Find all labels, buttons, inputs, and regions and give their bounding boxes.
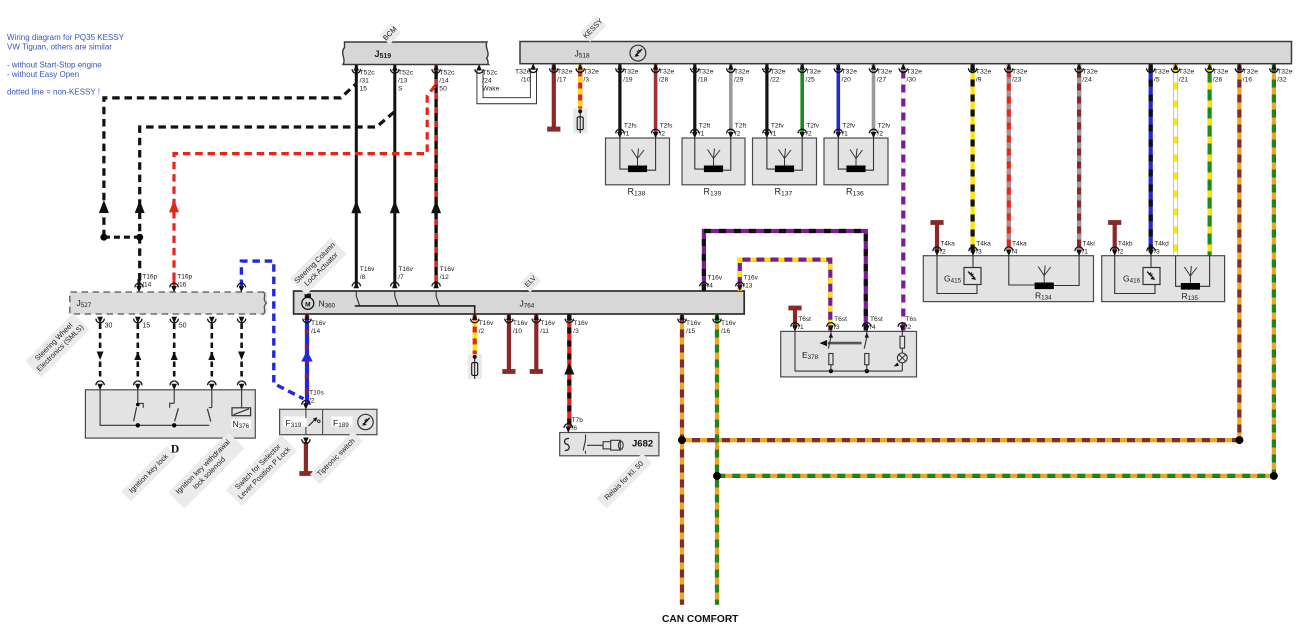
svg-text:T32e: T32e <box>583 69 599 76</box>
svg-text:T32e: T32e <box>515 69 531 76</box>
svg-text:/3: /3 <box>976 248 982 255</box>
junction dot CAN left 1 <box>678 436 686 444</box>
svg-text:/25: /25 <box>805 76 815 83</box>
wire T32e/5 (blue/black) <box>1149 65 1153 253</box>
connector J527 bottom 30 <box>96 317 113 330</box>
connector T32e/19 on J518 <box>616 63 639 83</box>
svg-text:/28: /28 <box>659 76 669 83</box>
connector J527 bottom x211 <box>208 317 216 323</box>
terminator above T4ka/2 <box>930 220 943 250</box>
connector T16v/13 on ELV top <box>736 275 759 292</box>
connector T2fs/1 on R138 <box>616 123 638 139</box>
wire T32e/20 (blue) <box>836 65 840 136</box>
svg-text:T32e: T32e <box>842 69 858 76</box>
svg-text:/4: /4 <box>1012 248 1018 255</box>
svg-text:T32e: T32e <box>1082 69 1098 76</box>
connector T2fs/2 on R138 <box>651 123 673 139</box>
svg-text:/19: /19 <box>623 76 633 83</box>
wire T32e/9 (yellow/black) <box>970 65 974 253</box>
wire T32e/26 (green/yellow) <box>1207 65 1211 256</box>
svg-text:T16v: T16v <box>721 320 736 327</box>
junction dot CAN right 2 <box>1270 472 1278 480</box>
svg-text:T52c: T52c <box>398 70 414 77</box>
svg-text:T32e: T32e <box>976 69 992 76</box>
svg-text:/9: /9 <box>976 76 982 83</box>
wire CAN comfort high T32e/32 (orange/green) <box>717 65 1274 476</box>
svg-text:Wake: Wake <box>482 86 499 93</box>
ignition lock housing D box <box>85 390 255 438</box>
svg-text:/2: /2 <box>660 130 666 137</box>
note header text <box>7 33 125 97</box>
connector T2ft/1 on R139 <box>691 123 711 139</box>
svg-text:T7b: T7b <box>572 417 584 424</box>
wire T16v/10 (maroon) terminator <box>502 315 515 374</box>
label CAN COMFORT <box>662 614 739 625</box>
svg-text:T32e: T32e <box>1012 69 1028 76</box>
junction dot CAN left 2 <box>713 472 721 480</box>
svg-text:T2fv: T2fv <box>878 123 892 130</box>
svg-text:/16: /16 <box>1243 76 1253 83</box>
svg-text:/13: /13 <box>398 78 408 85</box>
dashed wire non-KESSY red <box>169 84 436 280</box>
label BCM <box>380 23 401 44</box>
svg-text:T16p: T16p <box>142 274 157 281</box>
dashed wire J527 to D at x211 <box>208 324 215 382</box>
svg-text:/13: /13 <box>743 282 752 289</box>
label R136 <box>846 187 864 198</box>
connector T32e/9 on J518 <box>968 63 991 83</box>
connector T32e/28 on J518 <box>651 63 674 83</box>
connector T2ft/2 on R139 <box>727 123 747 139</box>
svg-text:15: 15 <box>142 323 150 330</box>
svg-text:T32e: T32e <box>734 69 750 76</box>
svg-text:/1: /1 <box>842 130 848 137</box>
svg-text:T2fs: T2fs <box>660 123 674 130</box>
connector T32e/10 on J518 <box>515 63 537 83</box>
svg-text:/1: /1 <box>699 130 705 137</box>
key reader icon in G415 <box>964 268 981 285</box>
svg-text:T6st: T6st <box>870 316 883 323</box>
svg-text:/16: /16 <box>721 328 730 335</box>
svg-text:T4ka: T4ka <box>976 241 991 248</box>
wire T32e/29 (gray) <box>729 65 733 136</box>
connector T16v/11 on ELV bottom <box>532 314 556 335</box>
label Switch for Selector Lever Position P Lock <box>226 435 297 506</box>
svg-text:/14: /14 <box>439 78 449 85</box>
svg-text:50: 50 <box>179 323 187 330</box>
svg-text:/5: /5 <box>1154 76 1160 83</box>
svg-text:/21: /21 <box>1179 76 1189 83</box>
dashed wire non-KESSY 2 (black) <box>135 112 395 281</box>
connector D top x211 <box>208 381 216 390</box>
svg-text:T16v: T16v <box>707 275 722 282</box>
svg-text:S: S <box>398 86 403 93</box>
svg-text:T52c: T52c <box>439 70 455 77</box>
label KESSY <box>580 15 607 42</box>
svg-text:T2ft: T2ft <box>699 123 711 130</box>
svg-text:dotted line = non-KESSY !: dotted line = non-KESSY ! <box>7 88 100 97</box>
svg-text:50: 50 <box>439 86 447 93</box>
aerial R136 box <box>824 138 888 185</box>
connector T16v/14 on ELV bottom <box>303 314 327 335</box>
svg-text:/10: /10 <box>513 328 522 335</box>
connector F319 bottom <box>302 438 310 444</box>
connector T32e/29 on J518 <box>727 63 750 83</box>
label R138 <box>628 187 646 198</box>
wire T32e/17 (maroon) with terminator <box>547 65 560 132</box>
svg-text:/4: /4 <box>707 282 713 289</box>
label G415 <box>944 274 962 285</box>
wire T32e/18 (black) <box>693 65 696 136</box>
interior reader box G416 <box>1102 256 1225 302</box>
svg-text:/2: /2 <box>806 130 812 137</box>
connector T32e/21 on J518 <box>1171 63 1194 83</box>
svg-text:/6: /6 <box>572 425 578 432</box>
connector T4ka/4 on G415 <box>1005 241 1027 257</box>
svg-text:/30: /30 <box>907 76 917 83</box>
junction dot CAN right 1 <box>1235 436 1243 444</box>
connector T16v/2 on ELV bottom <box>471 314 495 335</box>
connector T4kd/3 on G416 <box>1147 241 1169 257</box>
connector J527 bottom 50 <box>170 317 187 330</box>
svg-text:Wiring diagram for PQ35 KESSY: Wiring diagram for PQ35 KESSY <box>7 33 125 42</box>
svg-text:- without Start-Stop engine: - without Start-Stop engine <box>7 61 102 70</box>
wire T32e/23 (red/gray) <box>1007 65 1011 253</box>
switch F319 and F189 box <box>280 409 377 434</box>
dashed wire J527 to D at x241 <box>238 324 245 382</box>
switch unit E378 box <box>781 331 917 377</box>
svg-text:/14: /14 <box>311 328 320 335</box>
connector D top x174 <box>170 381 178 390</box>
svg-text:D: D <box>171 444 179 456</box>
svg-text:/23: /23 <box>1012 76 1022 83</box>
control module J518 (KESSY) bus bar <box>520 42 1292 64</box>
svg-text:/27: /27 <box>877 76 887 83</box>
svg-text:/8: /8 <box>360 274 366 281</box>
connector D top x100 <box>96 381 104 390</box>
svg-text:/7: /7 <box>398 274 404 281</box>
wire T52c/13 to T16v/7 (black) <box>390 65 400 287</box>
fuse on T32e/3 <box>573 109 587 134</box>
svg-text:T32e: T32e <box>659 69 675 76</box>
label R137 <box>775 187 793 198</box>
svg-text:T16v: T16v <box>686 320 701 327</box>
connector T16v/3 on ELV bottom <box>565 314 589 335</box>
wire T32e/21 (white/yellow) <box>1173 65 1178 256</box>
label Ignition key withdrawal lock solenoid <box>168 432 244 508</box>
connector D top x241 <box>237 381 245 390</box>
connector T10s/2 on F319 <box>302 390 325 410</box>
svg-text:/4: /4 <box>870 324 876 331</box>
aerial R135 <box>1181 266 1200 302</box>
label Tiptronic switch <box>310 431 363 484</box>
wire T32e/27 (gray) <box>872 65 876 136</box>
svg-text:T2fv: T2fv <box>842 123 856 130</box>
dashed wire J527 to D at x100 <box>97 324 104 382</box>
svg-text:/18: /18 <box>698 76 708 83</box>
svg-text:/1: /1 <box>624 130 630 137</box>
svg-text:- without Easy Open: - without Easy Open <box>7 70 79 79</box>
svg-text:T32e: T32e <box>1154 69 1170 76</box>
dashed wire non-KESSY 1 (black) <box>99 84 356 237</box>
wire T16v/15 (orange/maroon) CAN <box>680 315 684 605</box>
svg-text:/2: /2 <box>309 397 315 404</box>
label G416 <box>1123 274 1141 285</box>
key icon in F189 <box>358 414 373 429</box>
svg-text:T52c: T52c <box>482 70 498 77</box>
svg-text:/24: /24 <box>482 78 492 85</box>
svg-text:30: 30 <box>105 323 113 330</box>
svg-text:/3: /3 <box>834 324 840 331</box>
svg-text:CAN COMFORT: CAN COMFORT <box>662 614 739 625</box>
connector T6st/1 on E378 <box>791 316 811 332</box>
connector T16v/10 on ELV bottom <box>505 314 529 335</box>
connector T16p/16 on J527 <box>170 274 193 293</box>
svg-text:T2ft: T2ft <box>735 123 747 130</box>
label D <box>171 444 179 456</box>
connector T32e/16 on J518 <box>1235 63 1258 83</box>
connector T52c/31 on J519 <box>352 64 375 92</box>
connector T32e/3 on J518 <box>576 63 599 83</box>
svg-text:T4kd: T4kd <box>1154 241 1169 248</box>
aerial R138 box <box>606 138 670 185</box>
steering column lock actuator J764 bus bar <box>294 291 745 314</box>
svg-text:T16v: T16v <box>398 266 413 273</box>
svg-text:/3: /3 <box>573 328 579 335</box>
svg-text:/2: /2 <box>479 328 485 335</box>
svg-text:T16v: T16v <box>440 266 455 273</box>
connector T2fv/2 on R136 <box>869 123 891 139</box>
steering wheel electronics J527 box <box>70 292 267 314</box>
connector T16v/15 on ELV bottom <box>678 314 702 335</box>
label Steering Column Lock Actuator <box>290 238 347 295</box>
svg-text:T2fv: T2fv <box>771 123 785 130</box>
wire Wake loop T52c/24 to T32e/10 <box>480 69 533 101</box>
svg-text:T32e: T32e <box>1277 69 1293 76</box>
connector T32e/25 on J518 <box>798 63 821 83</box>
connector T4ka/3 on G415 <box>969 241 991 257</box>
svg-text:/1: /1 <box>1082 248 1088 255</box>
svg-text:T4ka: T4ka <box>1012 241 1027 248</box>
wire T52c/31 to T16v/8 (black) <box>351 65 361 287</box>
wire T16v/16 (orange/green) CAN <box>715 315 719 605</box>
wire T16v/2 (yellow/red) <box>473 315 477 357</box>
connector T32e/30 on J518 <box>899 63 922 83</box>
connector T2fv/2 on R137 <box>798 123 820 139</box>
svg-text:/2: /2 <box>1118 248 1124 255</box>
svg-text:T52c: T52c <box>360 70 376 77</box>
svg-text:15: 15 <box>360 86 368 93</box>
svg-text:/29: /29 <box>734 76 744 83</box>
aerial R139 box <box>682 138 745 185</box>
svg-text:/20: /20 <box>842 76 852 83</box>
connector J527 bottom x241 <box>237 317 245 323</box>
svg-text:T10s: T10s <box>309 390 324 397</box>
control module J519 (BCM) bus bar <box>343 42 489 65</box>
connector T32e/17 on J518 <box>550 63 573 83</box>
connector T52c/24 on J519 <box>475 64 500 92</box>
connector T32e/26 on J518 <box>1205 63 1228 83</box>
svg-text:T32e: T32e <box>770 69 786 76</box>
connector T32e/5 on J518 <box>1147 63 1170 83</box>
svg-text:T4kb: T4kb <box>1118 241 1133 248</box>
svg-text:/1: /1 <box>798 324 804 331</box>
svg-text:/17: /17 <box>557 76 567 83</box>
connector T4kb/2 on G416 <box>1111 241 1133 257</box>
svg-text:T16v: T16v <box>573 320 588 327</box>
svg-text:/3: /3 <box>1154 248 1160 255</box>
terminator below F319 <box>299 442 312 476</box>
svg-text:T6st: T6st <box>798 316 811 323</box>
svg-text:/2: /2 <box>735 130 741 137</box>
wire T16v/14 (blue/maroon) to F319 <box>301 315 313 405</box>
svg-text:/32: /32 <box>1277 76 1287 83</box>
label R139 <box>704 187 722 198</box>
svg-text:T32e: T32e <box>623 69 639 76</box>
svg-text:/3: /3 <box>583 76 589 83</box>
connector T52c/13 on J519 <box>391 64 414 92</box>
fuse on T16v/2 <box>468 354 482 379</box>
svg-text:/24: /24 <box>1082 76 1092 83</box>
svg-text:T2fv: T2fv <box>806 123 820 130</box>
wire T32e/25 (green) <box>800 65 804 136</box>
connector T16p/14 on J527 <box>135 274 158 293</box>
svg-text:/11: /11 <box>540 328 549 335</box>
terminator above T6st/1 <box>788 306 801 326</box>
connector blue on J527 <box>237 283 245 292</box>
wire T16v/4 to T6st/4 (purple/black) <box>704 231 866 331</box>
connector T32e/23 on J518 <box>1005 63 1028 83</box>
svg-text:/12: /12 <box>440 274 449 281</box>
wire T16v/13 to T6st/3 (purple/yellow) <box>740 260 831 331</box>
svg-text:T16v: T16v <box>743 275 758 282</box>
svg-text:/2: /2 <box>940 248 946 255</box>
svg-text:/15: /15 <box>686 328 695 335</box>
svg-text:T32e: T32e <box>877 69 893 76</box>
wire stub above T16p/14 <box>138 279 141 288</box>
label Ignition key lock <box>121 446 176 501</box>
svg-text:T16v: T16v <box>479 320 494 327</box>
connector T52c/14 on J519 <box>432 64 455 92</box>
aerial R137 box <box>753 138 817 185</box>
svg-text:T32e: T32e <box>907 69 923 76</box>
connector T6s/2 on E378 <box>898 316 917 332</box>
svg-text:/16: /16 <box>177 281 186 288</box>
wire T16v/11 (maroon) terminator <box>530 315 543 374</box>
connector T32e/20 on J518 <box>834 63 857 83</box>
wire T32e/22 (black) <box>765 65 768 136</box>
svg-text:T2fs: T2fs <box>624 123 638 130</box>
connector T7b/6 on J682 <box>564 417 583 433</box>
svg-text:VW Tiguan, others are similar: VW Tiguan, others are similar <box>7 43 112 52</box>
connector T2fv/1 on R137 <box>763 123 785 139</box>
connector J527 bottom 15 <box>134 317 151 330</box>
svg-text:T4ka: T4ka <box>940 241 955 248</box>
svg-text:/2: /2 <box>906 324 912 331</box>
wire stub above T16p/16 (red) <box>173 279 176 288</box>
label Steering Wheel Electronics <box>25 313 89 377</box>
connector T16v/7 on ELV top <box>391 266 414 288</box>
terminator above T4kb/2 <box>1108 220 1121 250</box>
wire CAN comfort low T32e/16 (orange/maroon) <box>682 65 1239 441</box>
connector T6st/3 on E378 <box>827 316 847 332</box>
relay J682 box <box>560 433 659 456</box>
svg-text:T4ki: T4ki <box>1082 241 1095 248</box>
motor N360 in ELV <box>302 294 336 310</box>
svg-text:T32e: T32e <box>1213 69 1229 76</box>
junction dots non-KESSY <box>100 234 143 241</box>
wire T32e/28 (dark red) <box>654 65 658 136</box>
wire T16v/3 (red/black) to J682 <box>564 315 574 429</box>
connector T16v/12 on ELV top <box>432 266 455 288</box>
svg-text:T32e: T32e <box>1243 69 1259 76</box>
key reader icon in G416 <box>1143 268 1160 285</box>
connector T2fv/1 on R136 <box>834 123 856 139</box>
svg-text:/10: /10 <box>521 77 531 84</box>
connector T16v/16 on ELV bottom <box>713 314 737 335</box>
svg-text:T16p: T16p <box>177 274 192 281</box>
label ELV <box>520 271 541 292</box>
connector T32e/18 on J518 <box>691 63 714 83</box>
svg-text:/26: /26 <box>1213 76 1223 83</box>
connector T16v/4 on ELV top <box>700 275 723 292</box>
svg-text:T32e: T32e <box>805 69 821 76</box>
svg-text:T16v: T16v <box>540 320 555 327</box>
fuse wire T32e/3 (red/yellow) <box>578 65 582 110</box>
svg-text:/2: /2 <box>878 130 884 137</box>
dashed wire non-KESSY blue <box>241 261 303 399</box>
connector T4ki/1 on G415 <box>1075 241 1095 257</box>
svg-text:/1: /1 <box>771 130 777 137</box>
connector T32e/22 on J518 <box>763 63 786 83</box>
dashed wire J527 to D at x174 <box>171 324 178 382</box>
svg-text:T6st: T6st <box>834 316 847 323</box>
connector T6st/4 on E378 <box>863 316 883 332</box>
svg-text:J682: J682 <box>632 439 653 450</box>
label Relais for Kl 50 <box>597 453 652 508</box>
svg-text:T32e: T32e <box>698 69 714 76</box>
svg-text:T16v: T16v <box>360 266 375 273</box>
svg-text:/14: /14 <box>142 281 151 288</box>
svg-text:T6s: T6s <box>906 316 918 323</box>
wire T52c/14 to T16v/12 (black/red) <box>431 65 441 287</box>
connector T32e/24 on J518 <box>1075 63 1098 83</box>
svg-text:T16v: T16v <box>513 320 528 327</box>
dashed wire J527 to D at x137 <box>134 324 141 382</box>
connector D top x137 <box>134 381 142 390</box>
connector T4ka/2 on G415 <box>933 241 955 257</box>
svg-text:T32e: T32e <box>1179 69 1195 76</box>
connector T16v/8 on ELV top <box>352 266 375 288</box>
wire T32e/19 (black) <box>618 65 621 136</box>
wire T32e/30 (purple/white) to E378 T6s/2 <box>901 65 905 331</box>
connector T32e/32 on J518 <box>1270 63 1293 83</box>
interior reader box G415 <box>923 256 1093 302</box>
svg-text:T32e: T32e <box>557 69 573 76</box>
svg-text:M: M <box>305 301 310 308</box>
svg-text:T16v: T16v <box>311 320 326 327</box>
svg-text:/31: /31 <box>360 78 370 85</box>
svg-text:/22: /22 <box>770 76 780 83</box>
connector T32e/27 on J518 <box>869 63 892 83</box>
key icon in J518 <box>630 45 646 61</box>
aerial R134 <box>1035 266 1054 302</box>
wire T32e/24 (maroon/gray) <box>1077 65 1081 253</box>
